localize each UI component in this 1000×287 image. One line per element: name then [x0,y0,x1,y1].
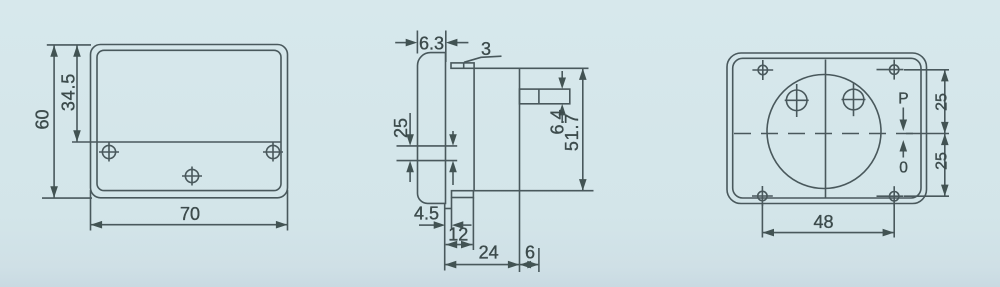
top mounting tab [451,63,474,68]
svg-text:3: 3 [481,39,491,59]
extension for 6 right [538,248,540,272]
extension below bezel right [444,203,446,270]
svg-text:24: 24 [479,242,499,262]
svg-text:4.5: 4.5 [414,204,439,224]
vertical centerline [825,60,827,198]
screw hole right [263,143,283,162]
pointer arrow down [900,108,908,132]
70 extension line right [287,190,289,231]
front bezel outer outline [91,45,288,198]
terminal block divider [538,89,540,104]
svg-text:25: 25 [934,152,951,170]
svg-text:6: 6 [525,242,535,262]
svg-text:48: 48 [813,212,833,232]
6.3 extension line left [416,31,418,54]
svg-text:0: 0 [899,159,908,176]
top tab divider [463,63,465,68]
pointer arrow up [900,140,908,158]
svg-text:60: 60 [32,109,52,129]
dimension 25 upper line [941,70,949,133]
dimension 24 line [445,261,520,269]
25 arrows right pair [449,131,457,185]
svg-text:34.5: 34.5 [58,73,78,111]
extension below tab back [472,198,474,251]
extension line top right [904,69,949,71]
screw hole left [99,143,119,162]
48 extension line right [893,201,895,238]
back cover outer outline [727,53,927,204]
6.4 dimension arrows [558,71,566,121]
terminal stud right [842,83,866,116]
bottom extension line [42,197,92,199]
step jog under bezel [445,208,452,210]
dimension 48 line [762,229,894,237]
top extension line [47,44,91,46]
bottom mounting tab [452,191,474,198]
case body [474,68,519,190]
mounting hole top-right [877,60,904,80]
dial divider line [72,141,281,143]
front bezel inner outline [97,50,281,190]
terminal block [520,89,570,104]
dimension 51.7 line [579,68,587,190]
movement housing circle [767,75,881,189]
dimension 70 line [91,221,288,229]
svg-text:25: 25 [934,93,951,111]
3 leader line [464,56,502,62]
48 extension line left [761,204,763,238]
bottom extension line to 51.7 [520,190,594,192]
bezel side profile [418,53,446,204]
svg-text:51.7: 51.7 [562,113,582,151]
dimension 6 line [520,261,539,269]
terminal stud left [785,84,809,117]
mounting hole bottom-left [752,186,773,206]
extension line bottom right [904,195,949,197]
svg-text:P: P [898,91,908,108]
top extension line to 51.7 [520,67,589,69]
extension below case back [519,191,521,272]
dimension 34.5 line [73,45,81,142]
dimension 12 line [446,241,473,249]
dimension 60 line [50,45,58,198]
extension line middle right [906,133,949,135]
screw hole bottom center [182,167,202,186]
horizontal dashed centerline [734,133,921,135]
stud line lower [397,160,458,162]
svg-text:12: 12 [448,225,468,245]
mounting hole bottom-right [877,186,904,206]
dimension 25 lower line [941,134,949,197]
dimension 6.3 arrows [395,39,468,47]
mounting hole top-left [752,60,773,80]
dimension 4.5 arrows [419,221,472,229]
extension below tab front [451,198,453,231]
svg-text:6.3: 6.3 [419,33,444,53]
70 extension line left [90,190,92,231]
25 arrows left pair [406,113,414,182]
stud line upper [397,145,458,147]
svg-text:25: 25 [391,118,411,138]
back cover inner outline [733,58,921,198]
6.3 extension line right [445,31,447,63]
svg-text:70: 70 [180,204,200,224]
